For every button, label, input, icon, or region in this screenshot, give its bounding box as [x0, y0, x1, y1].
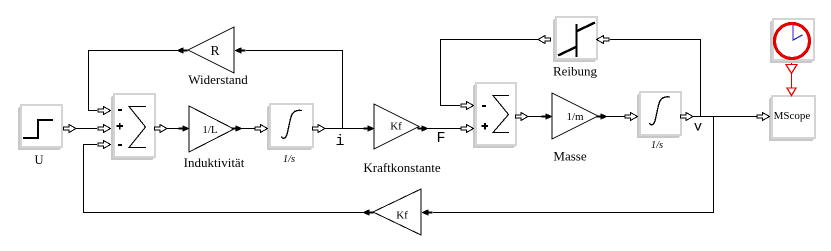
svg-text:1/L: 1/L — [202, 124, 218, 136]
svg-text:v: v — [694, 120, 702, 136]
svg-text:Kraftkonstante: Kraftkonstante — [363, 160, 440, 175]
svg-text:R: R — [210, 43, 219, 58]
svg-text:Widerstand: Widerstand — [188, 72, 248, 87]
svg-text:i: i — [335, 133, 344, 150]
svg-text:Kf: Kf — [396, 210, 408, 222]
svg-text:Kf: Kf — [390, 121, 402, 133]
svg-text:1/s: 1/s — [651, 140, 663, 151]
svg-text:Induktivität: Induktivität — [184, 155, 245, 170]
svg-text:F: F — [436, 130, 445, 147]
svg-text:1/m: 1/m — [566, 111, 584, 123]
svg-text:MScope: MScope — [774, 110, 811, 122]
svg-text:Reibung: Reibung — [553, 64, 598, 79]
svg-text:Masse: Masse — [553, 149, 586, 164]
svg-text:U: U — [34, 153, 43, 167]
svg-text:1/s: 1/s — [283, 154, 295, 165]
